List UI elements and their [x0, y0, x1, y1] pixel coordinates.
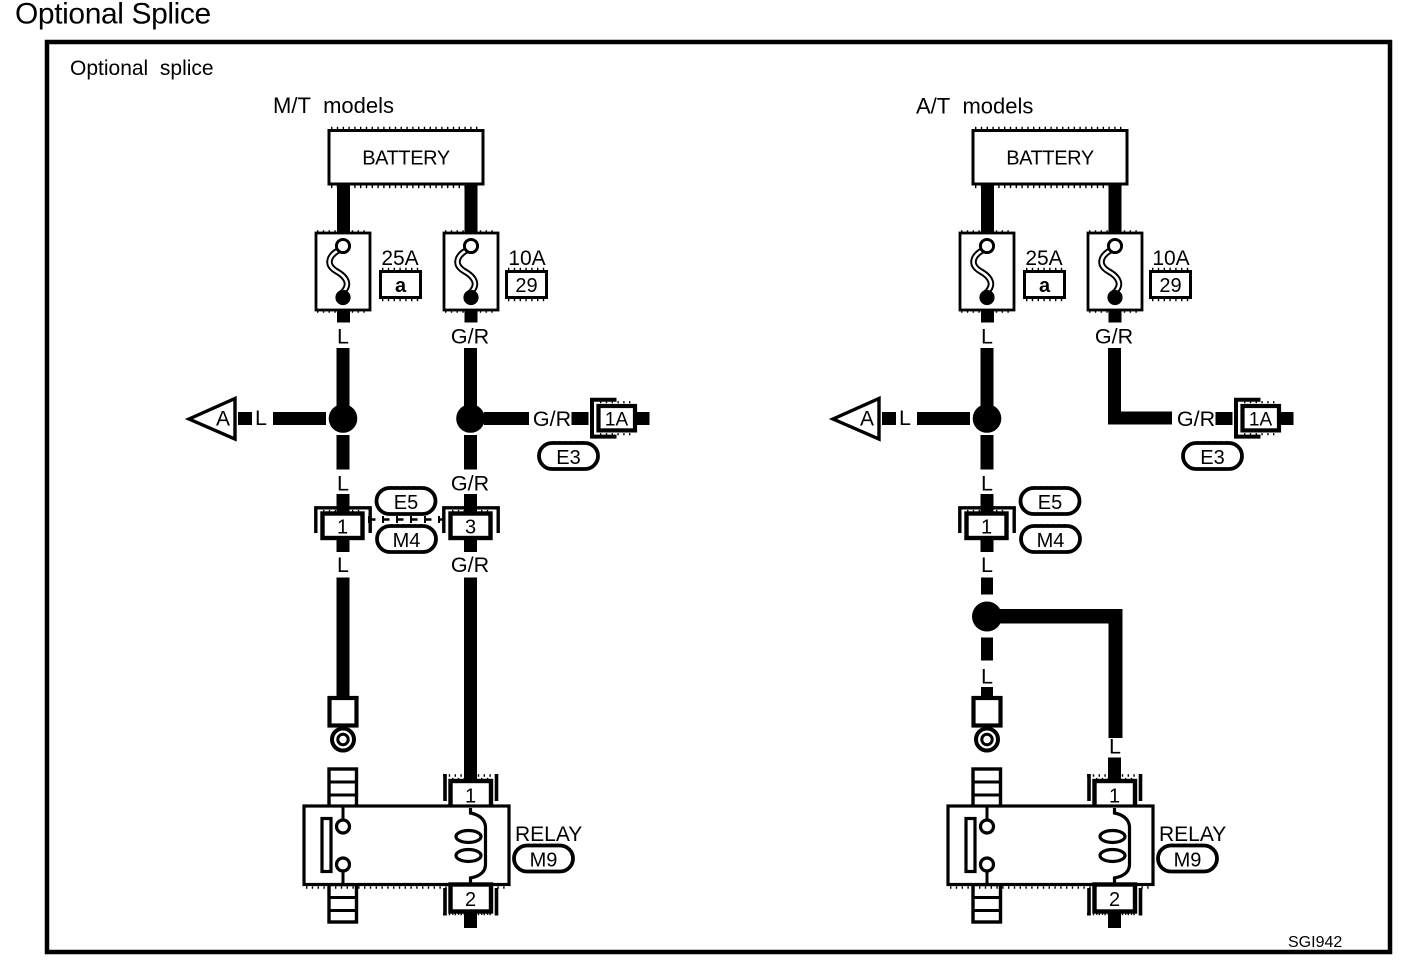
svg-text:L: L — [981, 665, 993, 689]
svg-text:Optional Splice: Optional Splice — [15, 0, 211, 31]
svg-text:Optional splice: Optional splice — [70, 57, 214, 80]
svg-text:G/R: G/R — [451, 553, 489, 577]
svg-text:M/T models: M/T models — [273, 93, 394, 118]
svg-text:G/R: G/R — [451, 471, 489, 495]
svg-text:SGI942: SGI942 — [1288, 934, 1342, 951]
svg-text:L: L — [1109, 735, 1121, 759]
svg-text:3: 3 — [465, 517, 476, 539]
svg-text:A/T models: A/T models — [916, 94, 1033, 119]
